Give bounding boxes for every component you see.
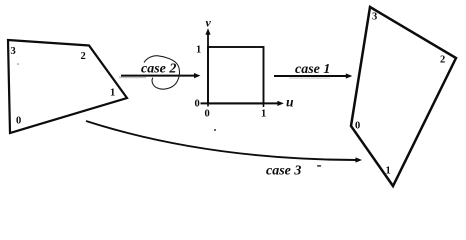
svg-text:3: 3 bbox=[11, 46, 16, 57]
svg-text:1: 1 bbox=[386, 166, 391, 177]
speck dot near case 3 bbox=[317, 165, 321, 166]
svg-text:v: v bbox=[206, 16, 212, 30]
faint speck inside left quad bbox=[17, 63, 19, 65]
tick at u=1 bbox=[263, 103, 265, 107]
svg-text:3: 3 bbox=[372, 12, 377, 23]
case 1 arrow bbox=[274, 75, 347, 77]
scan smudge under case 1 arrow bbox=[289, 77, 330, 78]
svg-text:0: 0 bbox=[205, 109, 210, 120]
svg-text:case 1: case 1 bbox=[295, 62, 330, 77]
v axis bbox=[207, 33, 209, 103]
scan smudge under case 2 arrow bbox=[119, 76, 146, 78]
svg-text:case 3: case 3 bbox=[266, 164, 301, 179]
svg-text:2: 2 bbox=[81, 51, 86, 62]
svg-text:2: 2 bbox=[440, 55, 445, 66]
svg-text:0: 0 bbox=[355, 121, 360, 132]
loop scribble around case 2 bbox=[144, 56, 180, 89]
left quadrilateral bbox=[8, 40, 127, 133]
svg-text:u: u bbox=[286, 95, 294, 110]
speck dot above curve bbox=[214, 129, 216, 131]
case 3 curved arrow bbox=[86, 121, 357, 160]
unit square bbox=[208, 47, 264, 103]
svg-text:case 2: case 2 bbox=[141, 62, 176, 77]
svg-text:0: 0 bbox=[195, 99, 200, 110]
svg-text:1: 1 bbox=[196, 45, 201, 56]
u axis bbox=[201, 102, 280, 104]
case 2 arrow bbox=[121, 75, 196, 77]
svg-text:1: 1 bbox=[110, 88, 115, 99]
tick stub below origin bbox=[207, 103, 209, 106]
svg-text:1: 1 bbox=[261, 109, 266, 120]
right quadrilateral bbox=[351, 7, 456, 186]
svg-text:0: 0 bbox=[16, 116, 21, 127]
